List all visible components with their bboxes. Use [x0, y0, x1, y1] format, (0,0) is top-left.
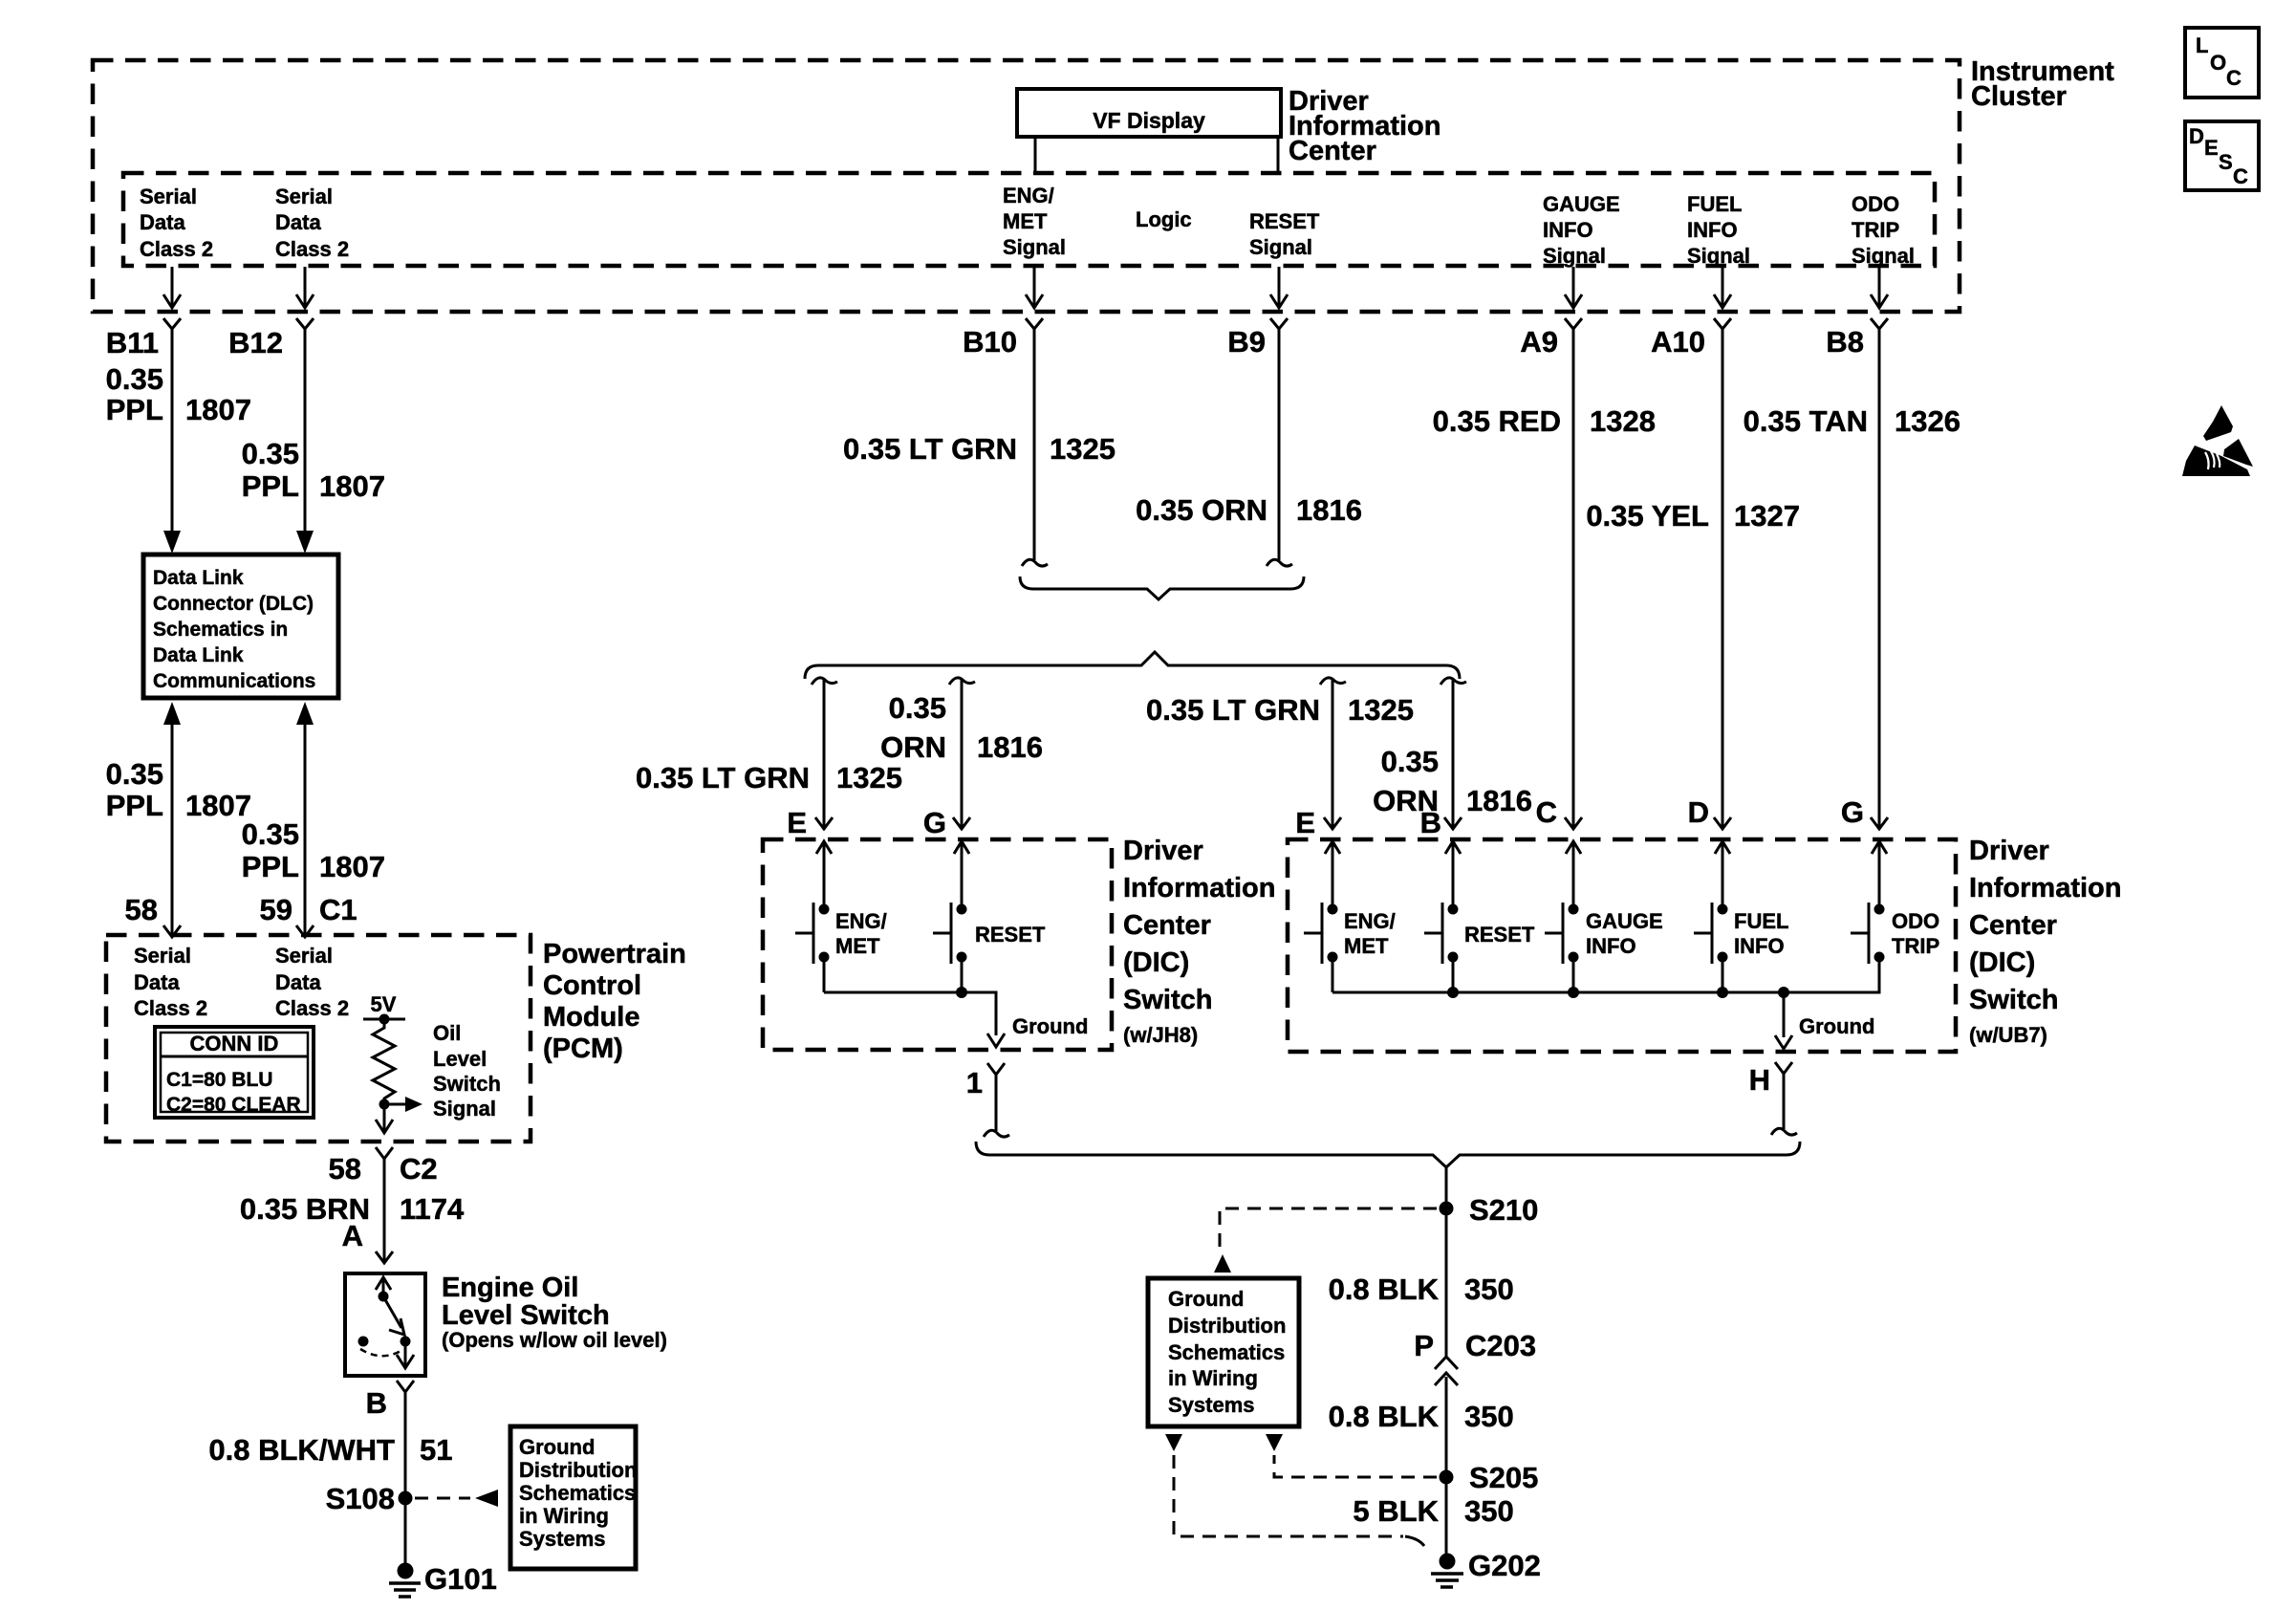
svg-text:1325: 1325: [1348, 693, 1414, 727]
svg-text:MET: MET: [1003, 209, 1048, 233]
ground arrow (sw1): [987, 1033, 1005, 1047]
svg-text:(PCM): (PCM): [543, 1033, 623, 1064]
svg-text:INFO: INFO: [1586, 934, 1636, 958]
connector pin E (switch 1): [953, 817, 970, 829]
svg-text:INFO: INFO: [1543, 218, 1593, 242]
connector pin 59 (PCM C1): [260, 893, 357, 937]
PCM dashed box: [106, 935, 531, 1142]
svg-text:S210: S210: [1469, 1193, 1538, 1227]
svg-text:B12: B12: [228, 326, 283, 359]
svg-text:B8: B8: [1826, 325, 1864, 359]
svg-text:58: 58: [329, 1152, 361, 1186]
dashed wire S205 to ground distribution: [1274, 1455, 1437, 1477]
label 0.8 BLK 350 (lower): [1329, 1400, 1514, 1433]
wire FUEL INFO to bus: [1722, 957, 1724, 992]
svg-text:Data Link: Data Link: [153, 644, 244, 666]
engine oil switch top contact: [379, 1292, 389, 1302]
pin letter C (switch 2): [1536, 795, 1557, 829]
label Serial Data Class 2 (B11): [140, 185, 213, 261]
svg-text:C: C: [2233, 164, 2248, 188]
svg-text:350: 350: [1464, 1273, 1514, 1306]
arrowhead out of DLC (B12): [296, 702, 314, 725]
svg-text:MET: MET: [835, 934, 880, 958]
wire pin H down with break hook: [1771, 1074, 1797, 1135]
switch ENG/MET (sw1) bar: [795, 903, 813, 964]
connector pin B12: [228, 318, 314, 359]
svg-text:TRIP: TRIP: [1852, 218, 1899, 242]
label Ground (sw2): [1799, 1014, 1874, 1038]
arrow serial data B12: [296, 267, 314, 308]
ESD sensitive symbol: [2182, 405, 2253, 476]
label GAUGE INFO: [1586, 909, 1663, 958]
svg-text:Data: Data: [275, 970, 321, 994]
arrow oil level switch signal: [384, 1097, 422, 1112]
node resistor bottom: [379, 1099, 390, 1110]
svg-text:S205: S205: [1469, 1461, 1538, 1494]
wire pin B into switch 2: [1445, 841, 1461, 909]
svg-text:TRIP: TRIP: [1892, 934, 1939, 958]
connector pin B9: [1227, 318, 1288, 359]
svg-text:B: B: [1420, 806, 1441, 839]
ground G101: [389, 1562, 497, 1597]
label Logic: [1136, 207, 1192, 231]
connector pin B11: [106, 318, 181, 359]
node 5V supply: [363, 1014, 405, 1025]
label Driver Information Center (DIC) Switch (w/JH8): [1123, 836, 1276, 1047]
connector pin C (switch 2): [1565, 817, 1582, 829]
svg-text:FUEL: FUEL: [1687, 192, 1742, 216]
connector pin G (switch 1): [815, 817, 833, 829]
wire pin 1 down with break hook: [984, 1075, 1009, 1137]
label 0.35 LT GRN 1325 (B10): [843, 432, 1116, 466]
svg-text:Class 2: Class 2: [275, 237, 349, 261]
arrowhead down from ground distribution (right): [1266, 1434, 1283, 1451]
wire A9: [1572, 329, 1575, 828]
svg-text:1328: 1328: [1590, 404, 1656, 438]
ground G202: [1431, 1549, 1541, 1587]
pin letter E (switch 2): [1295, 806, 1315, 839]
wire pin C into switch 2: [1566, 841, 1581, 909]
arrowhead down from ground distribution (left): [1165, 1434, 1182, 1451]
svg-text:S: S: [2219, 150, 2233, 174]
svg-text:C1=80 BLU: C1=80 BLU: [166, 1069, 272, 1091]
label 0.8 BLK 350 (upper): [1329, 1273, 1514, 1306]
svg-text:(w/JH8): (w/JH8): [1123, 1023, 1198, 1047]
label ENG/MET (sw1): [835, 909, 887, 958]
svg-text:E: E: [2204, 136, 2219, 160]
svg-text:Schematics: Schematics: [519, 1481, 636, 1505]
svg-text:B: B: [366, 1386, 387, 1420]
wire ENG/MET to bus (sw1): [823, 957, 826, 992]
connector pin A10: [1651, 318, 1731, 359]
svg-text:Connector (DLC): Connector (DLC): [153, 593, 314, 615]
label Ground (sw1): [1012, 1014, 1088, 1038]
svg-text:1326: 1326: [1895, 404, 1960, 438]
svg-text:CONN ID: CONN ID: [190, 1032, 279, 1055]
label 0.35 ORN 1816 (B sw2): [1373, 745, 1532, 817]
label 0.35 TAN 1326: [1744, 404, 1960, 438]
svg-text:Switch: Switch: [433, 1072, 501, 1096]
svg-text:Serial: Serial: [140, 185, 197, 208]
svg-text:1: 1: [966, 1066, 983, 1099]
splice S210: [1440, 1193, 1539, 1227]
wire VF display right lead: [1277, 137, 1280, 173]
svg-text:Signal: Signal: [433, 1097, 496, 1120]
label Driver Information Center: [1289, 86, 1441, 166]
svg-text:0.35: 0.35: [1381, 745, 1439, 778]
switch ENG/MET (sw1) contacts: [819, 904, 830, 963]
svg-text:Distribution: Distribution: [519, 1458, 637, 1482]
arrow ODO TRIP signal: [1871, 267, 1888, 308]
svg-text:5 BLK: 5 BLK: [1353, 1494, 1439, 1528]
wire break hook B10: [1022, 559, 1048, 566]
wire DLC to PCM (59): [304, 725, 307, 936]
svg-text:1816: 1816: [977, 730, 1043, 764]
svg-text:Module: Module: [543, 1002, 640, 1033]
label 0.35 RED 1328: [1433, 404, 1656, 438]
svg-text:Systems: Systems: [1168, 1393, 1255, 1417]
svg-text:0.35 ORN: 0.35 ORN: [1136, 493, 1267, 527]
wire S205 to G202: [1445, 1477, 1448, 1561]
svg-text:GAUGE: GAUGE: [1586, 909, 1663, 933]
svg-text:RESET: RESET: [975, 923, 1046, 946]
label 0.35 PPL 1807 (B12 upper): [242, 437, 385, 503]
svg-text:1807: 1807: [319, 850, 385, 883]
label Oil Level Switch Signal: [433, 1021, 501, 1120]
arrow PCM output down: [376, 1104, 393, 1133]
svg-text:PPL: PPL: [242, 469, 299, 503]
connector pin B: [366, 1381, 414, 1420]
label Engine Oil Level Switch: [442, 1273, 667, 1352]
svg-text:Engine Oil: Engine Oil: [442, 1273, 578, 1303]
label 0.35 LT GRN 1325 (E sw1): [636, 761, 902, 794]
svg-text:A9: A9: [1520, 325, 1558, 359]
arrow RESET signal: [1270, 267, 1288, 308]
svg-text:D: D: [1688, 795, 1709, 829]
label FUEL INFO Signal: [1687, 192, 1750, 268]
svg-text:S108: S108: [326, 1482, 395, 1515]
wire DLC to PCM (58): [171, 725, 174, 936]
svg-text:1816: 1816: [1466, 784, 1532, 817]
svg-text:B9: B9: [1227, 325, 1266, 359]
svg-text:E: E: [1295, 806, 1315, 839]
arrowhead into DLC (B11): [163, 531, 181, 554]
svg-text:0.35 TAN: 0.35 TAN: [1744, 404, 1868, 438]
arrow ENG/MET signal: [1026, 267, 1043, 308]
svg-text:Schematics in: Schematics in: [153, 619, 288, 641]
svg-text:Data: Data: [275, 210, 321, 234]
svg-text:P: P: [1414, 1329, 1434, 1362]
svg-text:Signal: Signal: [1687, 244, 1750, 268]
svg-text:350: 350: [1464, 1400, 1514, 1433]
svg-text:1325: 1325: [1050, 432, 1116, 466]
wire B12 to DLC: [304, 329, 307, 532]
splice S108: [326, 1482, 413, 1515]
label ENG/MET (sw2): [1344, 909, 1396, 958]
stub wire G (switch 1): [949, 678, 975, 828]
svg-text:G: G: [1841, 795, 1864, 829]
label 0.35 PPL 1807 (B11 upper): [106, 362, 251, 426]
svg-text:Serial: Serial: [275, 185, 333, 208]
label Serial Data Class 2 (B12): [275, 185, 349, 261]
connector C203: [1414, 1329, 1536, 1385]
svg-text:C2=80 CLEAR: C2=80 CLEAR: [166, 1094, 301, 1116]
svg-text:Switch: Switch: [1969, 985, 2058, 1015]
svg-text:Communications: Communications: [153, 670, 315, 692]
switch ODO TRIP contacts: [1874, 904, 1885, 963]
svg-text:0.35: 0.35: [106, 362, 163, 396]
label RESET (sw2): [1464, 923, 1535, 946]
svg-text:1174: 1174: [400, 1192, 465, 1226]
arrow serial data B11: [163, 267, 181, 308]
svg-text:INFO: INFO: [1687, 218, 1738, 242]
splice S205: [1440, 1461, 1539, 1494]
svg-text:A: A: [342, 1219, 363, 1252]
label Serial Data Class 2 (PCM 59): [275, 944, 349, 1020]
svg-text:Information: Information: [1969, 873, 2122, 903]
svg-text:Signal: Signal: [1003, 235, 1066, 259]
svg-text:ENG/: ENG/: [1344, 909, 1396, 933]
svg-text:ODO: ODO: [1892, 909, 1939, 933]
connector pin G (switch 2): [1871, 817, 1888, 829]
switch FUEL INFO bar: [1694, 903, 1712, 964]
connector pin A9: [1520, 318, 1582, 359]
engine oil switch bottom contacts: [358, 1337, 411, 1347]
brace gather switch grounds: [976, 1142, 1800, 1167]
svg-text:Data Link: Data Link: [153, 567, 244, 589]
dashed wire S210 to ground distribution: [1220, 1208, 1437, 1249]
wire oil switch to S108: [404, 1392, 407, 1570]
label 0.35 BRN 1174: [240, 1192, 465, 1226]
engine oil switch contact arrow up: [376, 1277, 391, 1295]
svg-text:1816: 1816: [1296, 493, 1362, 527]
label Instrument Cluster: [1971, 56, 2114, 112]
pin letter G (switch 1): [923, 806, 946, 839]
arrow FUEL INFO signal: [1714, 267, 1731, 308]
wire ENG/MET to bus (sw2): [1332, 957, 1334, 992]
svg-text:Signal: Signal: [1249, 235, 1312, 259]
dashed arrow S108 to ground distribution: [415, 1490, 498, 1507]
svg-text:Ground: Ground: [1799, 1014, 1874, 1038]
CONN ID table: [155, 1027, 314, 1118]
svg-text:58: 58: [125, 893, 158, 926]
label 0.35 LT GRN 1325 (E sw2): [1146, 693, 1414, 727]
switch RESET (sw1) bar: [933, 903, 951, 964]
switch FUEL INFO contacts: [1718, 904, 1728, 963]
label FUEL INFO: [1734, 909, 1788, 958]
engine oil level switch box: [345, 1273, 425, 1376]
svg-text:0.35: 0.35: [242, 437, 299, 470]
wire C203 to S205: [1445, 1377, 1448, 1477]
connector pin A: [342, 1219, 393, 1263]
arrowhead out of DLC (B11): [163, 702, 181, 725]
svg-text:1807: 1807: [319, 469, 385, 503]
ground distribution box (middle): [1148, 1278, 1299, 1426]
label ENG/MET Signal: [1003, 184, 1066, 259]
wire pin G into switch 2: [1872, 841, 1887, 909]
brace distribute to DIC switches: [805, 652, 1460, 679]
VF Display box: [1017, 89, 1281, 137]
LOC reference box: [2185, 28, 2259, 98]
instrument cluster outer dashed box: [93, 60, 1960, 312]
svg-text:Center: Center: [1123, 910, 1211, 941]
svg-text:B11: B11: [106, 326, 159, 359]
label GAUGE INFO Signal: [1543, 192, 1620, 268]
switch RESET (sw1) contacts: [957, 904, 967, 963]
wire PCM to engine oil level switch: [383, 1159, 386, 1262]
svg-text:Switch: Switch: [1123, 985, 1212, 1015]
ground takeoff node (sw2): [1778, 987, 1789, 1037]
svg-text:G: G: [923, 806, 946, 839]
svg-text:59: 59: [260, 893, 292, 926]
svg-text:RESET: RESET: [1249, 209, 1320, 233]
ground bus (sw2): [1332, 957, 1879, 998]
svg-text:1325: 1325: [836, 761, 902, 794]
label ODO TRIP Signal: [1852, 192, 1915, 268]
svg-text:Data: Data: [134, 970, 180, 994]
svg-text:5V: 5V: [371, 992, 397, 1016]
svg-text:Schematics: Schematics: [1168, 1340, 1285, 1364]
svg-text:Distribution: Distribution: [1168, 1314, 1286, 1338]
svg-text:ORN: ORN: [880, 730, 946, 764]
svg-text:H: H: [1749, 1063, 1770, 1097]
wire RESET to bus (sw2): [1452, 957, 1455, 992]
DIC switch 1 dashed box (w/JH8): [763, 839, 1112, 1050]
svg-text:ENG/: ENG/: [1003, 184, 1054, 207]
label Driver Information Center (DIC) Switch (w/UB7): [1969, 836, 2122, 1047]
svg-text:Class 2: Class 2: [134, 996, 207, 1020]
svg-text:Data: Data: [140, 210, 185, 234]
dashed wire ground distribution to G202: [1174, 1455, 1424, 1546]
svg-text:ODO: ODO: [1852, 192, 1899, 216]
svg-text:0.35: 0.35: [106, 757, 163, 791]
svg-text:Level Switch: Level Switch: [442, 1300, 610, 1331]
svg-text:Serial: Serial: [275, 944, 333, 968]
wire pin E into switch 1: [816, 841, 832, 909]
engine oil switch travel arc: [360, 1349, 402, 1356]
svg-text:1327: 1327: [1734, 499, 1800, 533]
label 0.35 YEL 1327: [1586, 499, 1800, 533]
svg-text:0.35 RED: 0.35 RED: [1433, 404, 1561, 438]
svg-text:Class 2: Class 2: [275, 996, 349, 1020]
svg-text:VF Display: VF Display: [1093, 108, 1205, 133]
pin letter E (switch 1): [787, 806, 807, 839]
svg-text:D: D: [2189, 124, 2204, 148]
svg-text:INFO: INFO: [1734, 934, 1785, 958]
brace gather B10/B9: [1020, 577, 1304, 599]
switch ODO TRIP bar: [1851, 903, 1869, 964]
svg-text:Center: Center: [1969, 910, 2057, 941]
connector pin H (sw2 ground): [1749, 1062, 1792, 1097]
pin letter D (switch 2): [1688, 795, 1709, 829]
svg-text:ENG/: ENG/: [835, 909, 887, 933]
svg-text:GAUGE: GAUGE: [1543, 192, 1620, 216]
wire S210 to C203: [1445, 1208, 1448, 1356]
connector pin D (switch 2): [1714, 817, 1731, 829]
svg-text:Signal: Signal: [1852, 244, 1915, 268]
switch RESET (sw2) contacts: [1448, 904, 1459, 963]
svg-text:Class 2: Class 2: [140, 237, 213, 261]
stub wire E (switch 2): [1320, 678, 1346, 828]
connector pin 58 (PCM C1): [125, 893, 181, 937]
label 0.35 ORN 1816 (G sw1): [880, 691, 1043, 764]
wire B10: [1033, 329, 1036, 560]
stub wire B (switch 2): [1440, 678, 1466, 828]
connector pin 1 (sw1 ground): [966, 1063, 1005, 1099]
svg-text:(Opens w/low oil level): (Opens w/low oil level): [442, 1328, 667, 1352]
pin letter G (switch 2): [1841, 795, 1864, 829]
label 0.35 ORN 1816 (B9): [1136, 493, 1362, 527]
svg-text:0.8 BLK: 0.8 BLK: [1329, 1273, 1440, 1306]
svg-text:Serial: Serial: [134, 944, 191, 968]
svg-text:0.35 LT GRN: 0.35 LT GRN: [1146, 693, 1320, 727]
svg-text:Center: Center: [1289, 136, 1376, 166]
label 0.8 BLK/WHT 51: [208, 1433, 452, 1467]
wire brace to S210: [1445, 1167, 1448, 1208]
stub wire E (switch 1): [812, 678, 837, 828]
svg-text:L: L: [2196, 33, 2208, 57]
wire A10: [1722, 329, 1724, 828]
ground arrow (sw2): [1775, 1035, 1792, 1049]
ground bus (sw1): [824, 987, 996, 1035]
wire VF display left lead: [1034, 137, 1037, 173]
connector pin 58 C2: [329, 1147, 438, 1186]
label Serial Data Class 2 (PCM 58): [134, 944, 207, 1020]
svg-text:0.8 BLK/WHT: 0.8 BLK/WHT: [208, 1433, 395, 1467]
arrow GAUGE INFO signal: [1565, 267, 1582, 308]
svg-text:(DIC): (DIC): [1123, 947, 1189, 978]
svg-text:C2: C2: [400, 1152, 438, 1186]
svg-text:O: O: [2210, 51, 2226, 75]
svg-text:in Wiring: in Wiring: [1168, 1366, 1258, 1390]
connector pin B10: [963, 318, 1043, 359]
switch ENG/MET (sw2) bar: [1304, 903, 1322, 964]
switch GAUGE INFO bar: [1545, 903, 1563, 964]
svg-text:MET: MET: [1344, 934, 1389, 958]
svg-text:G101: G101: [424, 1562, 497, 1596]
svg-text:(w/UB7): (w/UB7): [1969, 1023, 2047, 1047]
svg-text:(DIC): (DIC): [1969, 947, 2035, 978]
svg-text:C1: C1: [319, 893, 357, 926]
svg-text:0.35: 0.35: [242, 817, 299, 851]
label RESET (sw1): [975, 923, 1046, 946]
svg-text:51: 51: [420, 1433, 452, 1467]
svg-text:C203: C203: [1465, 1329, 1536, 1362]
wire B11 to DLC: [171, 329, 174, 532]
svg-text:A10: A10: [1651, 325, 1705, 359]
wire pin G into switch 1: [954, 841, 969, 909]
svg-text:0.35 LT GRN: 0.35 LT GRN: [843, 432, 1017, 466]
svg-text:Cluster: Cluster: [1971, 81, 2067, 112]
svg-text:Control: Control: [543, 970, 641, 1001]
label RESET Signal: [1249, 209, 1320, 259]
svg-text:0.35 LT GRN: 0.35 LT GRN: [636, 761, 810, 794]
svg-text:Driver: Driver: [1123, 836, 1203, 866]
svg-text:in Wiring: in Wiring: [519, 1504, 609, 1528]
switch RESET (sw2) bar: [1424, 903, 1442, 964]
svg-text:Systems: Systems: [519, 1527, 606, 1551]
svg-text:B10: B10: [963, 325, 1017, 359]
label 5 BLK 350: [1353, 1494, 1513, 1528]
svg-text:Oil: Oil: [433, 1021, 461, 1045]
wire GAUGE INFO to bus: [1572, 957, 1575, 992]
svg-text:Powertrain: Powertrain: [543, 939, 686, 969]
svg-text:Ground: Ground: [1168, 1287, 1244, 1311]
svg-text:PPL: PPL: [106, 393, 163, 426]
DESC reference box: [2185, 121, 2259, 190]
wire pin E into switch 2: [1325, 841, 1340, 909]
arrowhead into DLC (B12): [296, 531, 314, 554]
